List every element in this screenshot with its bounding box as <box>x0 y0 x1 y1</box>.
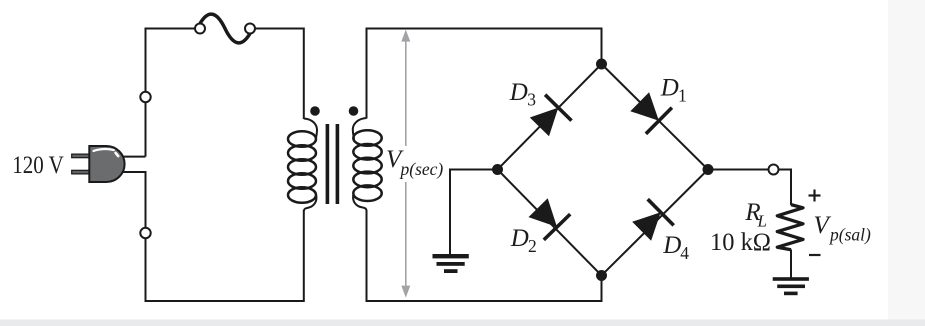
svg-text:D: D <box>662 232 681 259</box>
svg-text:4: 4 <box>680 243 689 263</box>
svg-text:D: D <box>510 225 529 252</box>
svg-text:p(sec): p(sec) <box>399 159 444 179</box>
svg-text:3: 3 <box>527 89 536 109</box>
svg-text:2: 2 <box>528 236 537 256</box>
svg-text:D: D <box>660 74 679 101</box>
svg-text:L: L <box>757 211 767 230</box>
svg-text:1: 1 <box>678 86 687 106</box>
svg-text:120 V: 120 V <box>12 152 64 179</box>
svg-text:p(sal): p(sal) <box>828 225 871 245</box>
svg-text:10 kΩ: 10 kΩ <box>710 229 771 256</box>
svg-text:D: D <box>509 79 528 106</box>
